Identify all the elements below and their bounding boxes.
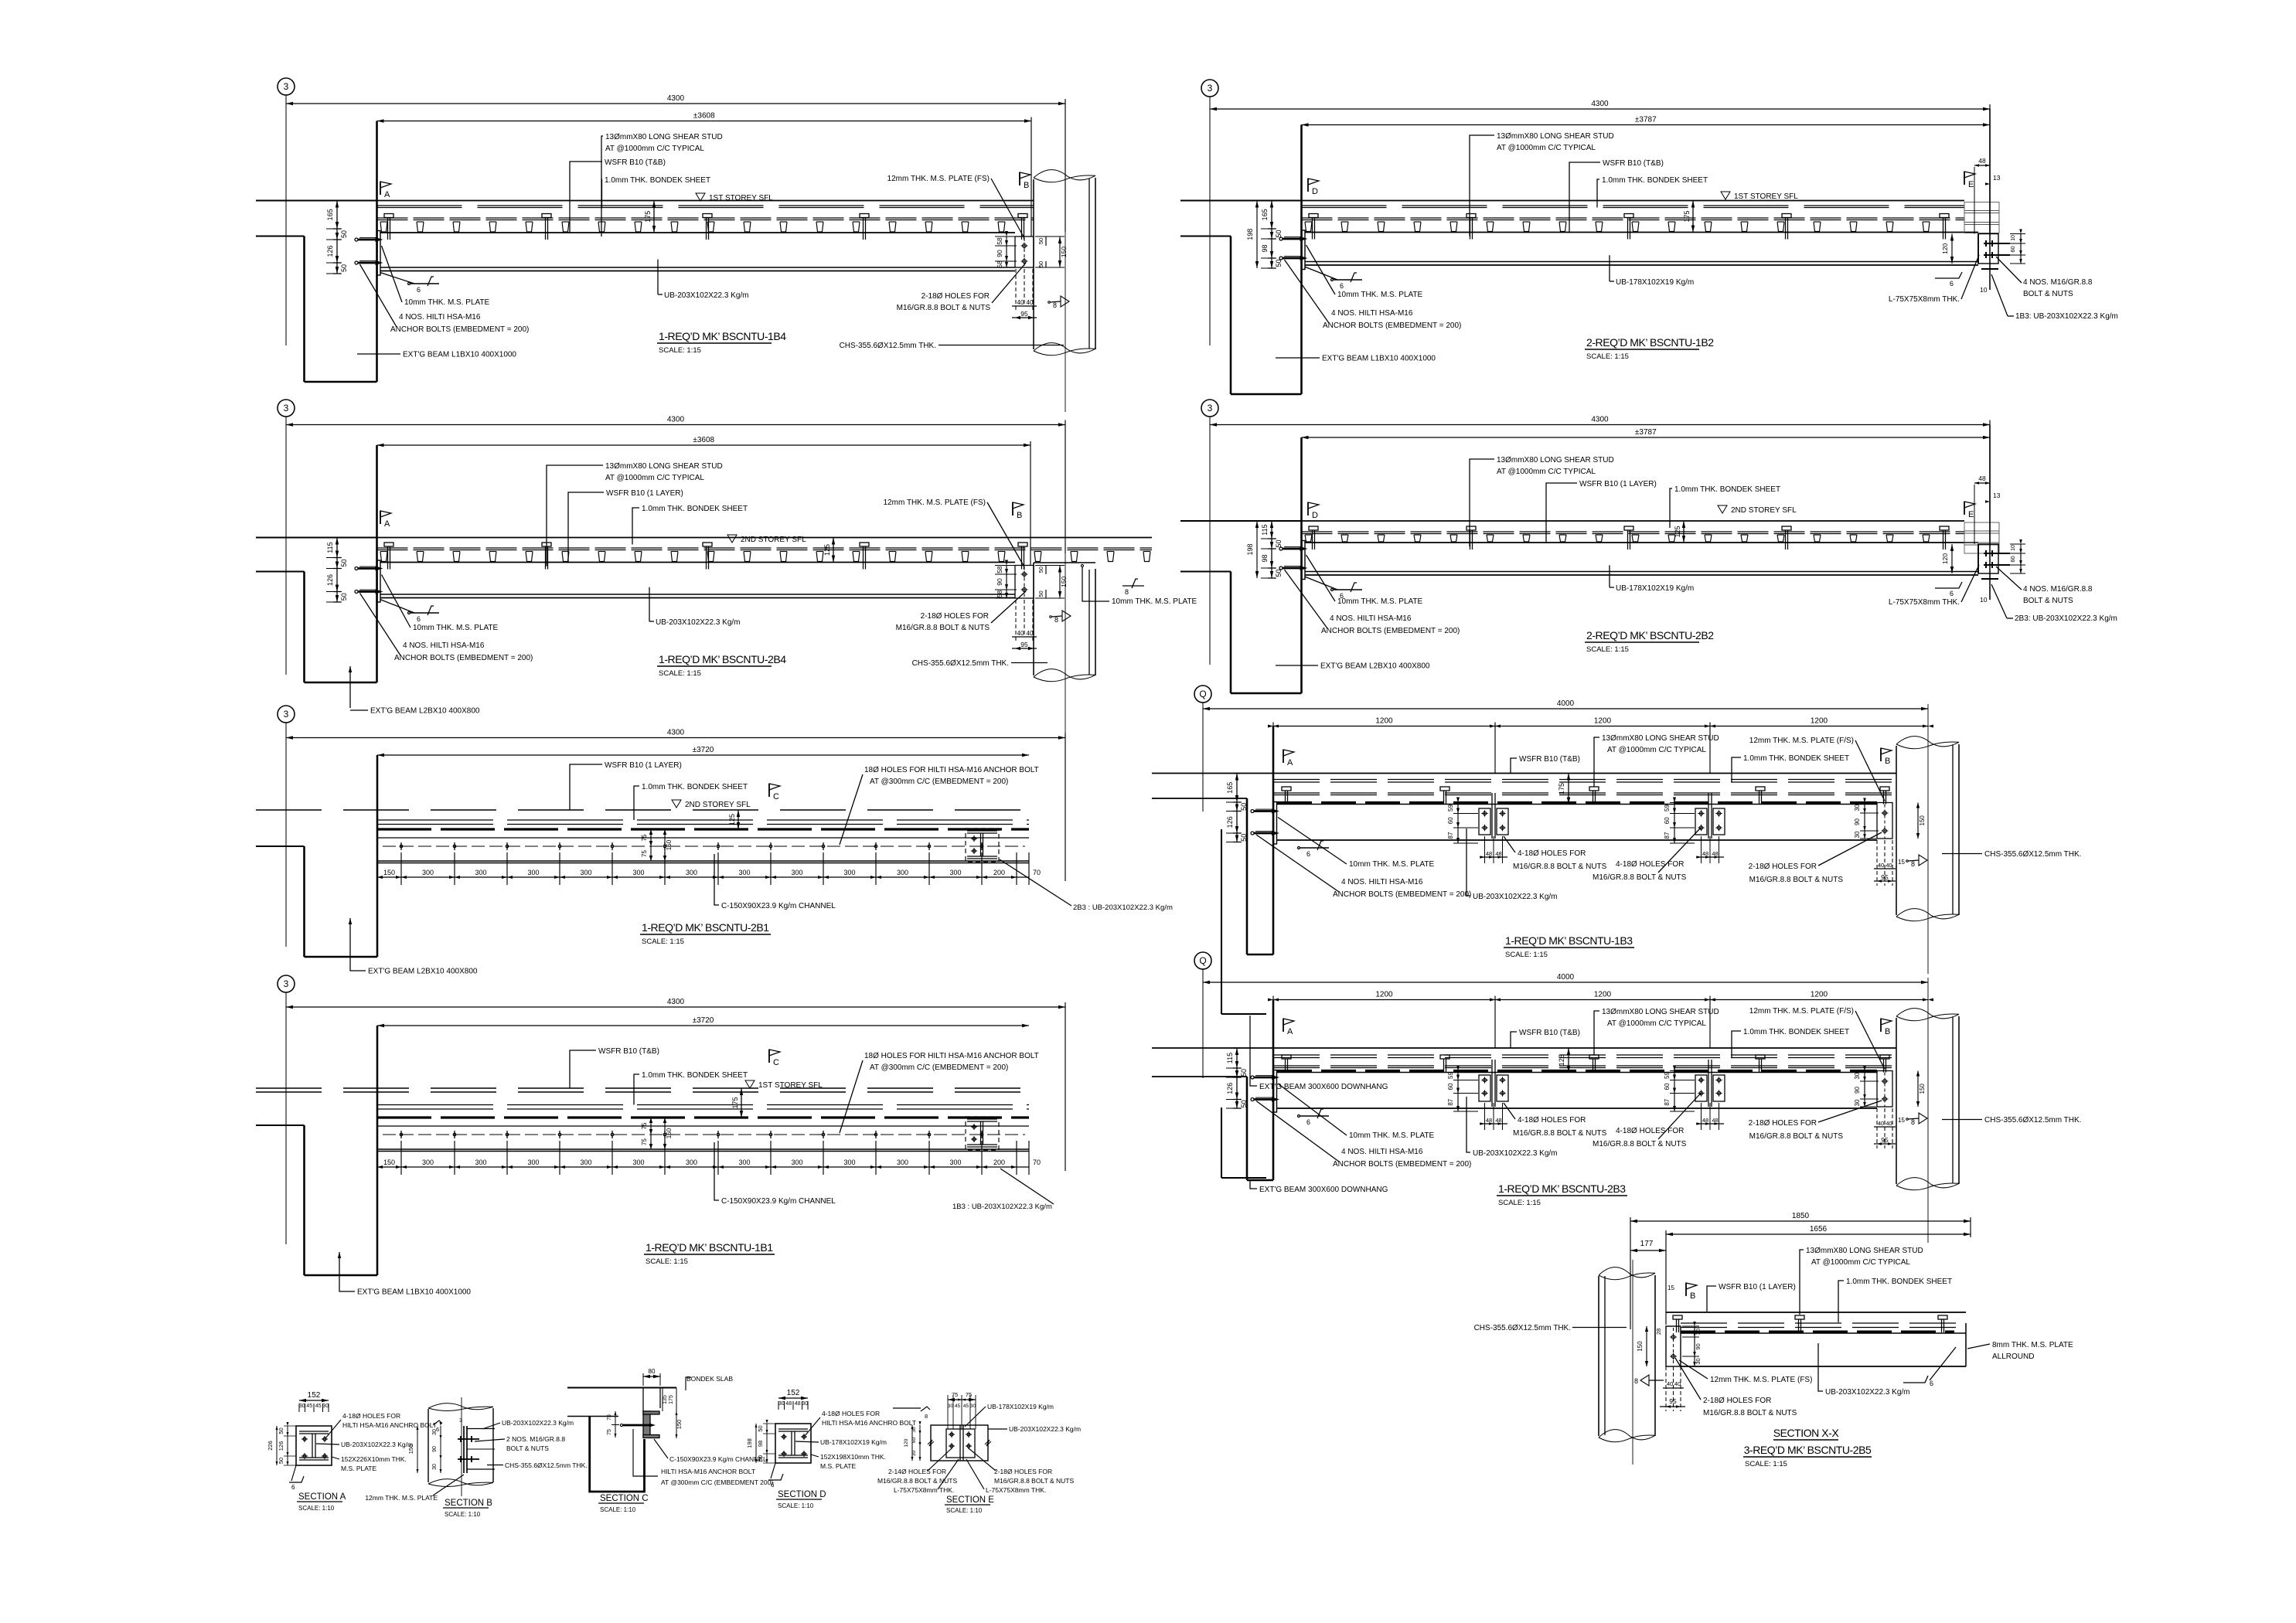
svg-text:175: 175: [1558, 783, 1565, 794]
svg-text:4 NOS. HILTI HSA-M16: 4 NOS. HILTI HSA-M16: [1341, 878, 1423, 886]
svg-text:40: 40: [1886, 1120, 1892, 1127]
svg-text:59: 59: [1447, 805, 1454, 811]
svg-text:1ST STOREY SFL: 1ST STOREY SFL: [758, 1081, 823, 1090]
svg-text:2-18Ø HOLES FOR: 2-18Ø HOLES FOR: [921, 612, 989, 621]
section C slab soffit line: [567, 1416, 618, 1417]
svg-text:WSFR B10 (1 LAYER): WSFR B10 (1 LAYER): [606, 489, 683, 498]
svg-text:UB-178X102X19 Kg/m: UB-178X102X19 Kg/m: [987, 1403, 1054, 1410]
svg-text:60: 60: [1447, 817, 1454, 824]
svg-text:50: 50: [1275, 539, 1283, 547]
detail 1B2 cleat bolts: [1984, 243, 2010, 244]
svg-text:40: 40: [1027, 299, 1034, 306]
svg-text:60: 60: [1664, 1083, 1671, 1090]
svg-text:198: 198: [1246, 543, 1254, 555]
svg-text:50: 50: [757, 1455, 764, 1461]
detail 2B4 slab depth dim: [833, 538, 834, 563]
svg-text:B: B: [1690, 1291, 1695, 1301]
detail 2B2 leader 10mm plate: [1306, 555, 1336, 601]
svg-text:300: 300: [632, 869, 644, 876]
svg-text:10: 10: [1980, 286, 1988, 294]
detail 2B4 weld symbol 6: [380, 600, 415, 614]
section E weld 8: [921, 1407, 930, 1411]
detail 2B3 studs: [1282, 1055, 1291, 1059]
detail 2B3 left dims: [1236, 1048, 1238, 1108]
svg-text:150: 150: [383, 1159, 395, 1166]
detail 1B2 section flag D: [1307, 179, 1309, 192]
svg-text:4-18Ø HOLES FOR: 4-18Ø HOLES FOR: [342, 1412, 400, 1420]
svg-text:4000: 4000: [1557, 973, 1575, 982]
detail 2B3 concrete downhang support: [1152, 1047, 1896, 1049]
svg-text:30: 30: [322, 1404, 329, 1409]
detail 1B1 section flag C: [768, 1050, 770, 1063]
detail 1B4 beam UB: [381, 232, 1016, 233]
detail 1B4 leader anchor bolts text: [360, 264, 397, 327]
detail 1B4 weld 8: [1061, 296, 1069, 307]
svg-text:3: 3: [284, 978, 289, 989]
svg-text:40: 40: [1878, 862, 1884, 869]
detail 2B2 dim 48: [1974, 482, 1990, 484]
detail 1B2 bottom plate: [1981, 268, 1998, 270]
detail 1B2 angle cleat: [1978, 234, 1998, 264]
svg-text:98: 98: [1261, 554, 1269, 562]
svg-text:1.0mm THK. BONDEK SHEET: 1.0mm THK. BONDEK SHEET: [1743, 1028, 1849, 1036]
detail 2B3 splice at 2212: [1708, 1060, 1709, 1107]
svg-text:60: 60: [2009, 556, 2016, 562]
detail 2B3 dims 1200: [1273, 999, 1928, 1001]
svg-text:1.0mm THK. BONDEK SHEET: 1.0mm THK. BONDEK SHEET: [1743, 754, 1849, 763]
detail 2B1 channel label: [714, 854, 719, 905]
svg-text:58: 58: [996, 566, 1003, 573]
svg-text:300: 300: [632, 1159, 644, 1166]
detail 1B2 anchor bolts: [1279, 237, 1283, 240]
svg-text:12mm THK. M.S. PLATE (F/S): 12mm THK. M.S. PLATE (F/S): [1749, 737, 1854, 745]
detail 1B1 anchor bolt marks: [400, 1131, 402, 1138]
detail 2B3 right plate dims: [1864, 1071, 1865, 1108]
svg-text:115: 115: [1261, 524, 1269, 535]
svg-text:UB-203X102X22.3 Kg/m: UB-203X102X22.3 Kg/m: [502, 1419, 574, 1427]
svg-text:ANCHOR BOLTS (EMBEDMENT = 200): ANCHOR BOLTS (EMBEDMENT = 200): [394, 654, 533, 662]
svg-text:300: 300: [843, 1159, 855, 1166]
svg-text:WSFR B10 (T&B): WSFR B10 (T&B): [1519, 1029, 1580, 1037]
svg-text:L-75X75X8mm THK.: L-75X75X8mm THK.: [1889, 295, 1960, 304]
svg-text:EXT'G BEAM L1BX10 400X1000: EXT'G BEAM L1BX10 400X1000: [357, 1288, 471, 1297]
svg-text:150: 150: [383, 869, 395, 876]
svg-text:48: 48: [1702, 850, 1708, 857]
svg-text:13ØmmX80 LONG SHEAR STUD: 13ØmmX80 LONG SHEAR STUD: [605, 462, 723, 471]
section X-X end plate: [1666, 1326, 1681, 1366]
detail 1B4 leader ext beam text: [357, 353, 400, 355]
svg-text:30: 30: [299, 1404, 305, 1409]
detail 1B2 beam UB: [1306, 232, 1979, 233]
svg-text:3: 3: [284, 709, 289, 720]
detail 2B2 left dims: [1271, 521, 1272, 578]
svg-text:1.0mm THK. BONDEK SHEET: 1.0mm THK. BONDEK SHEET: [1846, 1278, 1952, 1286]
detail 1B2 cleat dims: [1951, 234, 1953, 264]
svg-text:126: 126: [326, 245, 334, 257]
svg-text:C: C: [773, 1058, 779, 1067]
svg-text:8: 8: [1125, 588, 1129, 596]
detail 1B3 anchor bolts: [1251, 810, 1254, 813]
section X-X weld 8: [1640, 1375, 1649, 1386]
section SECTION A bolts: [303, 1438, 306, 1441]
svg-text:48: 48: [785, 1401, 792, 1407]
detail 1B2 concrete support: [1180, 199, 1302, 201]
svg-text:60: 60: [2009, 246, 2016, 252]
svg-text:1B3 : UB-203X102X22.3 Kg/m: 1B3 : UB-203X102X22.3 Kg/m: [952, 1203, 1052, 1211]
svg-text:4300: 4300: [667, 94, 685, 103]
detail 1B2 supporting beam section: [1964, 202, 1999, 233]
section B bolts: [458, 1438, 479, 1440]
detail 1B4 plate bolts: [1023, 244, 1027, 248]
svg-text:B: B: [1885, 1027, 1890, 1036]
detail 1B3 splice at 1932: [1491, 793, 1493, 839]
detail 2B4 beam label: [649, 587, 650, 621]
detail 1B3 beam outline: [1277, 804, 1877, 805]
svg-text:Q: Q: [1199, 689, 1206, 699]
svg-text:177: 177: [1640, 1240, 1654, 1248]
svg-text:90: 90: [996, 250, 1003, 257]
svg-text:AT @1000mm C/C TYPICAL: AT @1000mm C/C TYPICAL: [605, 474, 704, 482]
detail 2B2 angle cleat: [1978, 544, 1998, 573]
svg-text:2-REQ’D MK’ BSCNTU-1B2: 2-REQ’D MK’ BSCNTU-1B2: [1586, 336, 1714, 349]
section X-X CHS column: [1599, 1267, 1655, 1278]
svg-text:E: E: [1968, 180, 1974, 189]
section C dims: [662, 1388, 663, 1412]
svg-text:AT @300mm C/C (EMBEDMENT = 200: AT @300mm C/C (EMBEDMENT = 200): [870, 1063, 1008, 1072]
svg-text:2-18Ø HOLES FOR: 2-18Ø HOLES FOR: [1749, 863, 1817, 871]
detail 1B2 left dims: [1271, 201, 1272, 269]
detail 2B4 concrete support: [256, 536, 377, 538]
svg-text:±3787: ±3787: [1635, 428, 1657, 437]
detail 2B3 anchor bolts: [1251, 1076, 1254, 1079]
detail 1B1 channel top flange thick: [377, 1116, 1029, 1118]
svg-text:50: 50: [1275, 259, 1283, 267]
detail 2B2 storey level mark: [1718, 505, 1727, 513]
detail 2B3 grid circle Q: [1194, 952, 1211, 969]
detail 2B1 grid circle 3: [278, 706, 295, 723]
detail 1-REQ D MK BSCNTU-1B3: [1152, 686, 2081, 1091]
svg-text:6: 6: [1930, 1380, 1933, 1387]
svg-text:10mm THK. M.S. PLATE: 10mm THK. M.S. PLATE: [1349, 1131, 1435, 1140]
svg-text:1-REQ’D MK’ BSCNTU-2B3: 1-REQ’D MK’ BSCNTU-2B3: [1498, 1182, 1626, 1195]
svg-text:126: 126: [1226, 816, 1234, 828]
detail 1B2 slab deck: [1180, 200, 1964, 202]
svg-text:EXT'G BEAM 300X600 DOWNHANG: EXT'G BEAM 300X600 DOWNHANG: [1259, 1186, 1388, 1194]
svg-text:6: 6: [291, 1484, 295, 1491]
detail 2B2 slab deck: [1180, 520, 1964, 522]
svg-text:300: 300: [738, 869, 750, 876]
detail 1B2 grid circle 3: [1201, 80, 1218, 97]
detail 2B1 channel web line: [377, 837, 1029, 839]
svg-text:40: 40: [1027, 630, 1034, 637]
section X-X weld 6 right: [1903, 1376, 1928, 1383]
svg-text:13ØmmX80 LONG SHEAR STUD: 13ØmmX80 LONG SHEAR STUD: [1602, 1008, 1719, 1016]
svg-text:300: 300: [843, 869, 855, 876]
detail 1-REQ D MK BSCNTU-2B1: [256, 706, 1173, 976]
detail 1B3 section flag B: [1880, 748, 1882, 761]
svg-text:50: 50: [1275, 230, 1283, 237]
svg-text:300: 300: [897, 1159, 908, 1166]
svg-text:ANCHOR BOLTS (EMBEDMENT = 200): ANCHOR BOLTS (EMBEDMENT = 200): [1333, 890, 1471, 899]
svg-text:10mm THK. M.S. PLATE: 10mm THK. M.S. PLATE: [1337, 597, 1423, 606]
section SECTION D bolts: [782, 1435, 785, 1438]
svg-text:1-REQ’D MK’ BSCNTU-2B1: 1-REQ’D MK’ BSCNTU-2B1: [642, 921, 769, 934]
detail 2B4 weld 8: [1062, 611, 1071, 621]
detail 1B4 anchor bolts: [355, 238, 358, 241]
svg-text:50: 50: [278, 1458, 284, 1464]
svg-text:2ND STOREY SFL: 2ND STOREY SFL: [1731, 506, 1797, 515]
detail 1B3 left notes: [1300, 847, 1329, 849]
svg-text:Q: Q: [1199, 955, 1206, 966]
svg-text:4-18Ø HOLES FOR: 4-18Ø HOLES FOR: [1616, 1127, 1684, 1135]
svg-text:75: 75: [952, 1391, 958, 1398]
svg-text:50: 50: [340, 264, 348, 272]
section C detail: [567, 1368, 773, 1513]
svg-text:40: 40: [1017, 299, 1024, 306]
svg-text:1-REQ’D MK’ BSCNTU-1B3: 1-REQ’D MK’ BSCNTU-1B3: [1505, 934, 1633, 947]
svg-text:CHS-355.6ØX12.5mm THK.: CHS-355.6ØX12.5mm THK.: [505, 1461, 588, 1469]
svg-text:4 NOS. HILTI HSA-M16: 4 NOS. HILTI HSA-M16: [1330, 614, 1412, 623]
svg-text:8mm THK. M.S. PLATE: 8mm THK. M.S. PLATE: [1992, 1341, 2073, 1349]
svg-text:L-75X75X8mm THK.: L-75X75X8mm THK.: [1889, 598, 1960, 607]
svg-text:AT @1000mm C/C TYPICAL: AT @1000mm C/C TYPICAL: [1607, 1019, 1706, 1028]
detail 2B4 storey level mark: [727, 535, 737, 543]
detail 2B2 weld 6 right: [1935, 582, 1962, 588]
svg-text:18Ø HOLES FOR HILTI HSA-M16 AN: 18Ø HOLES FOR HILTI HSA-M16 ANCHOR BOLT: [864, 1052, 1039, 1060]
svg-text:165: 165: [1226, 782, 1234, 794]
svg-text:48: 48: [795, 1401, 801, 1407]
svg-text:58: 58: [996, 237, 1003, 245]
detail 2B2 beam label: [1609, 565, 1610, 587]
svg-text:8: 8: [1054, 616, 1058, 624]
svg-text:300: 300: [686, 1159, 697, 1166]
svg-text:87: 87: [1664, 832, 1671, 839]
svg-text:SCALE: 1:15: SCALE: 1:15: [642, 937, 684, 946]
svg-text:30: 30: [1695, 1358, 1702, 1364]
detail 1B1 channel depth dims: [650, 1118, 652, 1135]
section X-X studs: [1673, 1315, 1682, 1319]
svg-text:48: 48: [1486, 1117, 1492, 1124]
svg-text:M16/GR.8.8 BOLT & NUTS: M16/GR.8.8 BOLT & NUTS: [994, 1477, 1074, 1485]
detail 2B2 cleat bolts: [1984, 553, 2010, 554]
svg-text:1200: 1200: [1375, 991, 1393, 999]
svg-text:48: 48: [1486, 850, 1492, 857]
detail 2B2 dim 4300: [1210, 424, 1990, 426]
svg-text:50: 50: [1240, 803, 1248, 811]
svg-text:12mm THK. M.S. PLATE (FS): 12mm THK. M.S. PLATE (FS): [1710, 1376, 1812, 1384]
svg-text:126: 126: [326, 574, 334, 586]
svg-text:A: A: [1287, 758, 1293, 767]
detail 1B4 leader 10mm plate: [382, 246, 403, 302]
svg-text:150: 150: [1637, 1341, 1644, 1352]
detail 1B1 anchor bolt center line: [383, 1134, 1025, 1135]
svg-text:125: 125: [728, 814, 736, 825]
svg-text:SCALE: 1:10: SCALE: 1:10: [946, 1507, 983, 1514]
svg-text:M.S. PLATE: M.S. PLATE: [820, 1462, 856, 1470]
svg-text:4 NOS. M16/GR.8.8: 4 NOS. M16/GR.8.8: [2023, 585, 2093, 594]
svg-text:6: 6: [1950, 590, 1954, 597]
svg-text:125: 125: [1674, 526, 1681, 537]
detail 1B4 dim 4300: [286, 103, 1065, 104]
svg-text:1.0mm THK. BONDEK SHEET: 1.0mm THK. BONDEK SHEET: [642, 783, 748, 791]
svg-text:300: 300: [422, 1159, 434, 1166]
section X-X plate lower dims: [1665, 1366, 1667, 1411]
detail 1B4 CHS column: [1034, 170, 1095, 180]
svg-text:SECTION A: SECTION A: [298, 1492, 346, 1502]
svg-text:13: 13: [1993, 492, 2001, 499]
svg-text:50: 50: [1037, 261, 1044, 267]
svg-text:D: D: [1312, 511, 1318, 520]
svg-text:50: 50: [757, 1425, 764, 1431]
svg-text:30: 30: [1854, 831, 1861, 838]
svg-text:10mm THK. M.S. PLATE: 10mm THK. M.S. PLATE: [1349, 860, 1435, 869]
detail 2B2 shear studs: [1309, 526, 1318, 530]
svg-text:90: 90: [432, 1446, 438, 1452]
svg-text:1B3: UB-203X102X22.3 Kg/m: 1B3: UB-203X102X22.3 Kg/m: [2015, 312, 2118, 321]
svg-text:1.0mm THK. BONDEK SHEET: 1.0mm THK. BONDEK SHEET: [605, 176, 710, 185]
svg-text:50: 50: [340, 593, 348, 601]
svg-text:±3720: ±3720: [693, 746, 714, 754]
svg-text:30: 30: [1854, 1099, 1861, 1106]
svg-text:125: 125: [1558, 1054, 1565, 1066]
svg-text:HILTI HSA-M16 ANCHOR BOLT: HILTI HSA-M16 ANCHOR BOLT: [661, 1468, 755, 1475]
svg-text:SCALE: 1:10: SCALE: 1:10: [445, 1511, 481, 1518]
detail 2B4 leader 10mm plate: [382, 575, 411, 628]
svg-text:15: 15: [1667, 1284, 1674, 1291]
svg-text:30: 30: [432, 1464, 438, 1470]
svg-text:1200: 1200: [1594, 991, 1612, 999]
svg-text:28: 28: [1655, 1329, 1662, 1335]
detail 1B4 weld symbol 6: [380, 273, 415, 284]
section C concrete outline: [590, 1417, 645, 1492]
svg-text:300: 300: [949, 869, 961, 876]
svg-text:ANCHOR BOLTS (EMBEDMENT = 200): ANCHOR BOLTS (EMBEDMENT = 200): [390, 325, 529, 334]
detail 2B2 end plate 10mm: [1302, 541, 1305, 580]
section X-X dim 1656: [1666, 1233, 1971, 1235]
svg-text:A: A: [1287, 1027, 1293, 1036]
detail 1B3 ext beam downhang label: [1250, 1016, 1257, 1086]
svg-text:WSFR B10 (T&B): WSFR B10 (T&B): [598, 1047, 659, 1056]
svg-text:3: 3: [459, 1417, 462, 1424]
detail 2B4 column center line: [1065, 420, 1066, 739]
detail 2B2 grid circle 3: [1201, 400, 1218, 417]
svg-text:152: 152: [308, 1391, 321, 1400]
svg-text:SCALE: 1:10: SCALE: 1:10: [298, 1505, 335, 1512]
detail 1B3 concrete downhang support: [1152, 773, 1896, 774]
detail 1B4 column center line: [1065, 99, 1066, 412]
svg-text:15: 15: [1898, 1117, 1905, 1124]
svg-text:10: 10: [2011, 235, 2016, 241]
svg-text:126: 126: [1226, 1083, 1234, 1094]
svg-text:HILTI HSA-M16 ANCHRO BOLT: HILTI HSA-M16 ANCHRO BOLT: [822, 1419, 916, 1427]
detail 2B1 slab dashed lines: [256, 809, 1029, 811]
svg-text:90: 90: [1695, 1343, 1702, 1349]
svg-text:45: 45: [963, 1404, 969, 1409]
detail 2B3 section flag B: [1880, 1019, 1882, 1032]
svg-text:L-75X75X8mm THK.: L-75X75X8mm THK.: [894, 1486, 954, 1494]
detail 2B2 anchor bolts: [1279, 547, 1283, 550]
detail 2B1 concrete support: [256, 846, 305, 847]
svg-text:1-REQ’D MK’ BSCNTU-2B4: 1-REQ’D MK’ BSCNTU-2B4: [659, 653, 786, 665]
svg-text:48: 48: [1712, 1117, 1718, 1124]
svg-text:50: 50: [1037, 590, 1044, 597]
svg-text:300: 300: [527, 1159, 539, 1166]
svg-text:1200: 1200: [1375, 717, 1393, 726]
svg-text:50: 50: [1240, 834, 1248, 842]
svg-text:150: 150: [1060, 576, 1068, 587]
detail 2B3 CHS column: [1896, 1009, 1959, 1019]
svg-text:CHS-355.6ØX12.5mm THK.: CHS-355.6ØX12.5mm THK.: [912, 659, 1009, 668]
svg-text:2-18Ø HOLES FOR: 2-18Ø HOLES FOR: [1749, 1119, 1817, 1128]
svg-text:8: 8: [1911, 860, 1915, 868]
svg-text:M16/GR.8.8 BOLT & NUTS: M16/GR.8.8 BOLT & NUTS: [1703, 1409, 1797, 1417]
svg-text:SCALE: 1:15: SCALE: 1:15: [659, 669, 701, 678]
svg-text:90: 90: [1854, 1087, 1861, 1094]
svg-text:30: 30: [948, 1404, 954, 1409]
svg-text:C-150X90X23.9 Kg/m CHANNEL: C-150X90X23.9 Kg/m CHANNEL: [721, 1197, 836, 1206]
svg-text:48: 48: [1978, 157, 1986, 165]
svg-text:M16/GR.8.8 BOLT & NUTS: M16/GR.8.8 BOLT & NUTS: [1593, 1140, 1687, 1148]
svg-text:4 NOS. HILTI HSA-M16: 4 NOS. HILTI HSA-M16: [1331, 309, 1413, 318]
svg-text:EXT'G BEAM L2BX10 400X800: EXT'G BEAM L2BX10 400X800: [370, 707, 480, 716]
svg-text:4300: 4300: [1591, 416, 1609, 424]
section SECTION D weld: [768, 1474, 783, 1480]
detail 2B1 dim 3720: [377, 754, 1029, 756]
detail 1B1 bolt spacing dims: [376, 1141, 378, 1175]
detail 1B3 dims 1200: [1273, 726, 1928, 727]
svg-text:95: 95: [1669, 1397, 1677, 1405]
svg-text:UB-203X102X22.3 Kg/m: UB-203X102X22.3 Kg/m: [1473, 893, 1558, 901]
svg-text:50: 50: [1275, 569, 1283, 577]
svg-text:UB-203X102X22.3 Kg/m: UB-203X102X22.3 Kg/m: [1473, 1149, 1558, 1158]
svg-text:1.0mm THK. BONDEK SHEET: 1.0mm THK. BONDEK SHEET: [1602, 176, 1708, 185]
svg-text:70: 70: [1033, 869, 1041, 876]
svg-text:115: 115: [1226, 1053, 1234, 1063]
svg-text:CHS-355.6ØX12.5mm THK.: CHS-355.6ØX12.5mm THK.: [1984, 1116, 2081, 1125]
svg-text:10: 10: [2011, 545, 2016, 551]
svg-text:48: 48: [1978, 475, 1986, 482]
detail 1B2 leader ext beam text: [1276, 357, 1320, 359]
detail 2B3 right end plate: [1877, 1071, 1892, 1108]
detail 1B2 storey level mark: [1721, 192, 1730, 199]
svg-text:M16/GR.8.8 BOLT & NUTS: M16/GR.8.8 BOLT & NUTS: [1593, 873, 1687, 882]
svg-text:60: 60: [1447, 1083, 1454, 1090]
svg-text:4-18Ø HOLES FOR: 4-18Ø HOLES FOR: [1518, 849, 1586, 858]
svg-text:30: 30: [802, 1401, 808, 1407]
svg-text:8: 8: [1634, 1377, 1638, 1385]
svg-text:18Ø HOLES FOR HILTI HSA-M16 AN: 18Ø HOLES FOR HILTI HSA-M16 ANCHOR BOLT: [864, 766, 1039, 774]
svg-text:200: 200: [993, 1159, 1005, 1166]
svg-text:75: 75: [641, 1122, 648, 1129]
svg-text:4 NOS. HILTI HSA-M16: 4 NOS. HILTI HSA-M16: [403, 641, 485, 650]
svg-text:HILTI HSA-M16 ANCHRO BOLT: HILTI HSA-M16 ANCHRO BOLT: [342, 1421, 437, 1429]
detail 1B1 dim 3720: [377, 1025, 1029, 1026]
detail 2B1 section flag C: [768, 784, 770, 797]
detail 2B1 dim 4300: [286, 737, 1065, 739]
svg-text:1200: 1200: [1811, 717, 1828, 726]
detail 1B4 section flag A: [380, 182, 381, 195]
svg-text:±3608: ±3608: [693, 112, 715, 121]
detail 1B2 weld 6 right: [1935, 272, 1962, 278]
svg-text:175: 175: [644, 211, 652, 223]
svg-text:120: 120: [904, 1438, 909, 1447]
svg-text:ANCHOR BOLTS (EMBEDMENT = 200): ANCHOR BOLTS (EMBEDMENT = 200): [1321, 627, 1460, 635]
detail 1B3 studs: [1282, 787, 1291, 791]
svg-text:4 NOS. HILTI HSA-M16: 4 NOS. HILTI HSA-M16: [1341, 1148, 1423, 1156]
svg-text:M16/GR.8.8 BOLT & NUTS: M16/GR.8.8 BOLT & NUTS: [1749, 1132, 1844, 1141]
svg-text:SCALE: 1:15: SCALE: 1:15: [646, 1257, 688, 1266]
detail 1B1 ext beam label: [339, 1252, 355, 1291]
